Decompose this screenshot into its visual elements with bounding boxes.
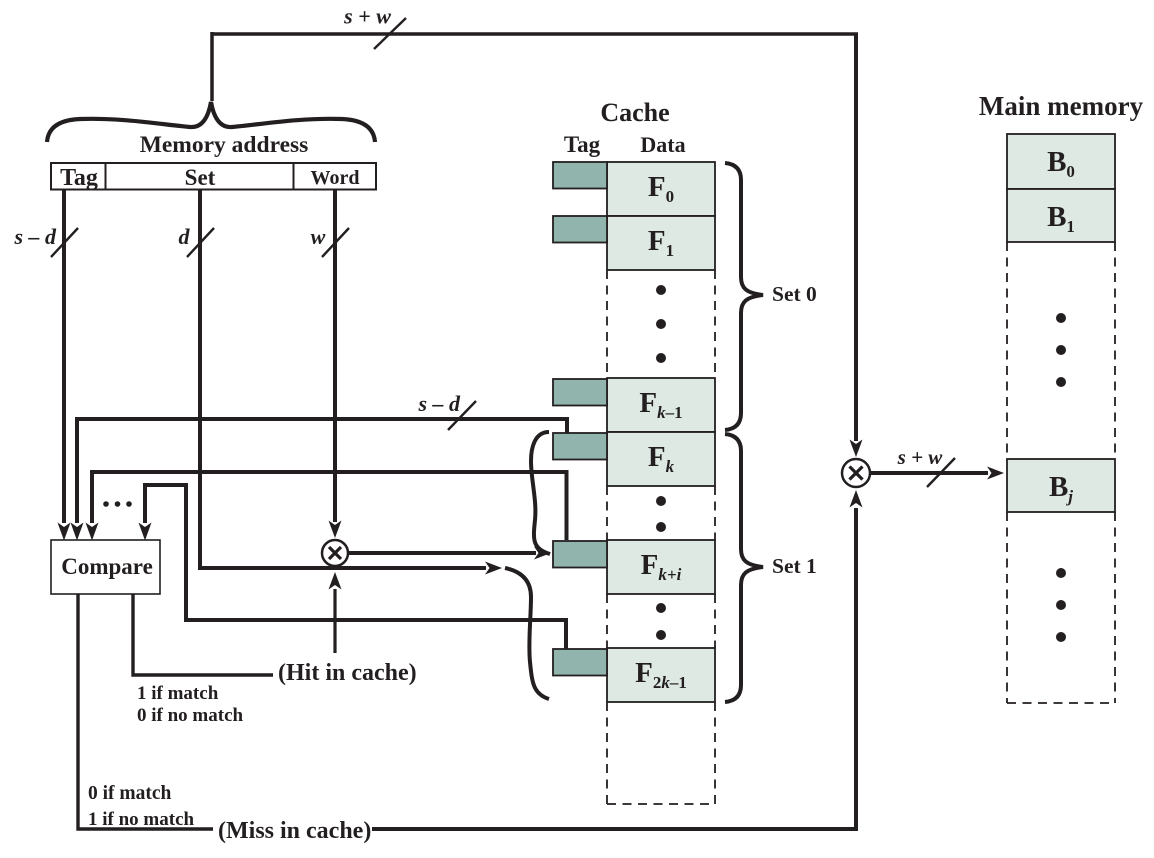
divider tag/set [105, 163, 107, 190]
svg-text:Tag: Tag [564, 132, 601, 157]
wire top bus down to main memory multiplier [854, 34, 858, 441]
tag box F2k-1 [553, 649, 607, 676]
arrowhead Fk-1 feedback into compare [71, 523, 84, 541]
svg-text:1 if no match: 1 if no match [88, 809, 195, 830]
multiplier node main memory [842, 459, 870, 487]
wire compare to hit output [133, 594, 273, 675]
node dots memory top [1056, 313, 1066, 323]
memory address box [51, 163, 376, 190]
cache line F0 [607, 162, 715, 216]
wire feedback Fk tag to compare [92, 472, 567, 540]
arrowhead set select [485, 562, 502, 575]
cache line Fk+i [607, 540, 715, 594]
memory block Bj [1007, 459, 1115, 512]
wire hit arrow up into multiplier [333, 589, 336, 653]
tag box F1 [553, 216, 607, 243]
arrowhead hit into multiplier [329, 572, 342, 590]
slash tag line [51, 228, 78, 257]
memory dashed gap top [1007, 242, 1115, 459]
arrowhead bus into multiplier [850, 440, 863, 458]
svg-text:1 if match: 1 if match [137, 683, 219, 704]
wire tag line down to compare [62, 190, 66, 523]
wire feedback Fk-1 tag to compare [77, 419, 567, 523]
svg-text:s + w: s + w [897, 445, 944, 469]
svg-text:Word: Word [311, 167, 360, 189]
memory dashed gap bottom [1007, 512, 1115, 703]
slash word line [322, 228, 349, 257]
svg-text:w: w [311, 224, 326, 249]
svg-text:(Hit in cache): (Hit in cache) [278, 660, 417, 686]
arrowhead word into multiplier [329, 521, 342, 539]
compare unit [51, 540, 160, 594]
svg-text:Cache: Cache [600, 98, 669, 127]
divider set/word [293, 163, 295, 190]
svg-text:(Miss in cache): (Miss in cache) [218, 818, 371, 844]
arrowhead F2k-1 feedback into compare [139, 523, 152, 541]
slash set line [187, 228, 214, 257]
memory block B0 [1007, 134, 1115, 189]
svg-text:0 if match: 0 if match [88, 783, 172, 804]
tag box Fk+i [553, 541, 607, 568]
arrowhead Fk feedback into compare [86, 523, 99, 541]
slash feedback line [448, 401, 476, 430]
wire compare to miss output [78, 594, 213, 829]
svg-text:Memory address: Memory address [140, 132, 309, 158]
svg-text:Tag: Tag [60, 165, 98, 191]
cache dashed gap set1a [607, 486, 715, 540]
tag box Fk [553, 433, 607, 460]
svg-text:Data: Data [640, 132, 685, 157]
wire multiplier to Bj [870, 471, 988, 475]
slash right bus [927, 458, 955, 487]
svg-text:Main memory: Main memory [979, 91, 1144, 121]
svg-text:s – d: s – d [417, 391, 461, 416]
svg-text:Set 0: Set 0 [772, 282, 817, 306]
svg-text:s + w: s + w [343, 4, 391, 29]
slash top bus [374, 18, 406, 49]
brace select set1 top [531, 432, 550, 554]
arrowhead miss up into multiplier [850, 490, 863, 508]
node dots memory bottom [1056, 568, 1066, 578]
cache line Fk-1 [607, 378, 715, 432]
cache line Fk [607, 432, 715, 486]
wire set line down and right to set select [200, 190, 486, 568]
brace over memory address [47, 102, 375, 142]
wire brace stem [210, 32, 214, 101]
cache line F2k-1 [607, 648, 715, 702]
wire feedback F2k-1 tag to compare [145, 485, 566, 650]
cache line F1 [607, 216, 715, 270]
cache dashed gap set1b [607, 594, 715, 648]
brace set0 [725, 163, 763, 430]
multiplier node word/tag [322, 540, 348, 566]
arrowhead into Bj [987, 467, 1004, 480]
arrowhead into Fk+i tag [534, 547, 551, 560]
node dots set0 [656, 285, 666, 295]
svg-text:Compare: Compare [61, 554, 153, 579]
svg-text:Set: Set [185, 165, 216, 190]
svg-text:s – d: s – d [13, 224, 57, 249]
svg-text:Set 1: Set 1 [772, 554, 817, 578]
wire multiplier to Fk+i tag [348, 551, 536, 555]
brace select set1 bottom [505, 568, 549, 699]
wire word line down to multiplier [333, 190, 337, 522]
node ellipsis compare inputs [103, 501, 109, 507]
node dots set1a [656, 496, 666, 506]
memory block B1 [1007, 189, 1115, 242]
brace set1 [725, 434, 763, 702]
tag box F0 [553, 162, 607, 189]
tag box Fk-1 [553, 379, 607, 406]
svg-text:0 if no match: 0 if no match [137, 705, 244, 726]
cache dashed bottom region [607, 702, 715, 804]
node dots set1b [656, 603, 666, 613]
arrowhead tag into compare [58, 523, 71, 541]
cache dashed gap set0 [607, 270, 715, 378]
svg-text:d: d [179, 224, 191, 249]
wire miss to main memory multiplier [372, 508, 856, 829]
wire top s+w bus [212, 34, 858, 44]
